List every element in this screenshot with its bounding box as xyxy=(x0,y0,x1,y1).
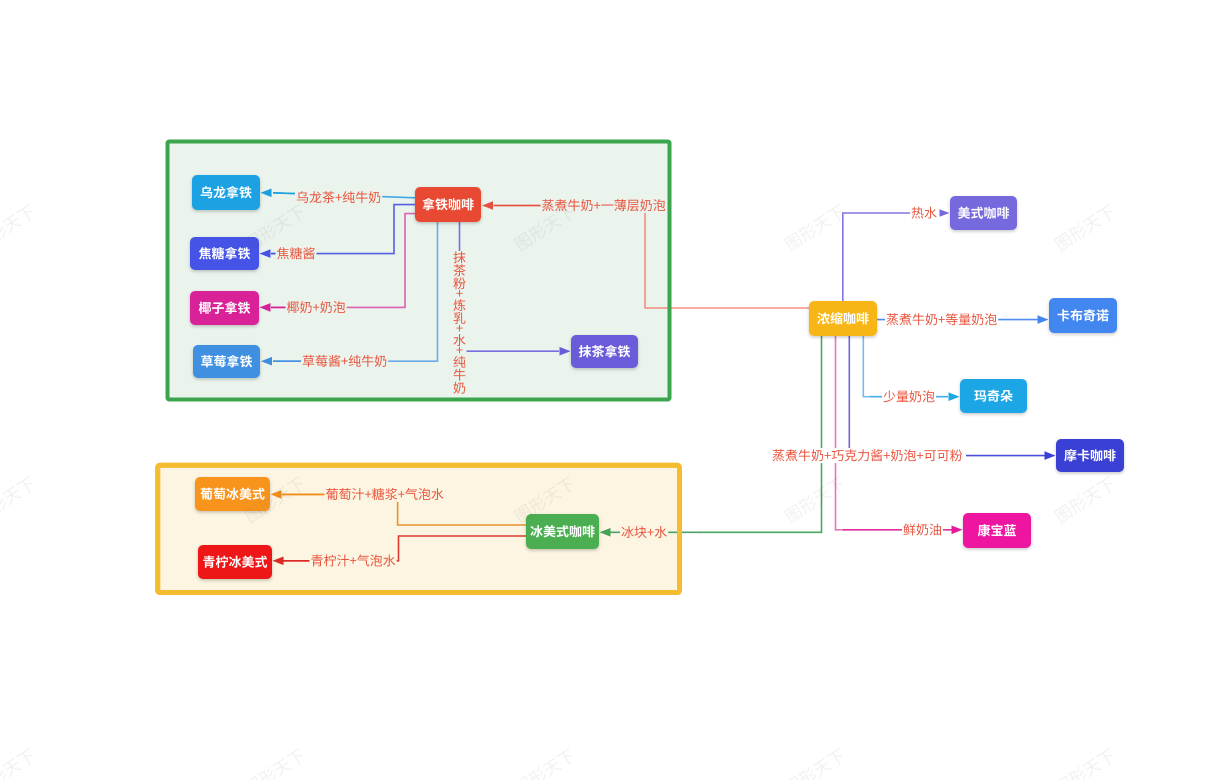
arrow into 冰美式咖啡 xyxy=(600,528,611,537)
node 卡布奇诺 xyxy=(1049,298,1117,333)
wire 浓缩咖啡 to 卡布奇诺 xyxy=(877,319,1038,321)
wire 拿铁咖啡 to 乌龙拿铁 xyxy=(273,193,416,198)
node 草莓拿铁 xyxy=(193,345,260,378)
node 浓缩咖啡 xyxy=(809,301,877,336)
label 焦糖酱 xyxy=(276,246,317,261)
wire 拿铁咖啡 to 草莓拿铁 xyxy=(273,222,438,361)
wire 浓缩咖啡 to 摩卡咖啡 xyxy=(848,336,850,448)
wire 拿铁咖啡 to 抹茶拿铁 xyxy=(460,222,560,351)
arrow into 草莓拿铁 xyxy=(273,360,303,362)
arrow into 椰子拿铁 xyxy=(271,306,287,308)
label 鲜奶油 xyxy=(902,522,943,537)
label 少量奶泡 xyxy=(882,389,936,404)
label 青柠汁+气泡水 xyxy=(310,553,397,568)
node 椰子拿铁 xyxy=(190,291,259,325)
watermark pattern 图形天下 xyxy=(0,203,1117,780)
node 玛奇朵 xyxy=(960,379,1027,413)
arrow into 美式咖啡 xyxy=(940,209,950,217)
node 葡萄冰美式 xyxy=(195,477,270,511)
arrow into 焦糖拿铁 xyxy=(271,253,277,255)
wire 浓缩咖啡 to 玛奇朵 xyxy=(863,336,872,397)
label 热水 xyxy=(910,206,938,221)
arrow into 拿铁咖啡 xyxy=(494,205,543,207)
label 蒸煮牛奶+一薄层奶泡 xyxy=(541,198,667,213)
node 拿铁咖啡 xyxy=(415,187,481,222)
node 乌龙拿铁 xyxy=(192,175,260,210)
arrow into 玛奇朵 xyxy=(949,392,960,401)
group container (latte family) green box xyxy=(168,142,670,400)
arrow into 摩卡咖啡 xyxy=(1045,451,1056,460)
label 葡萄汁+糖浆+气泡水 xyxy=(325,487,445,502)
arrow into 青柠冰美式 xyxy=(284,560,312,562)
label 蒸煮牛奶+巧克力酱+奶泡+可可粉 xyxy=(771,448,964,463)
node 抹茶拿铁 xyxy=(571,335,638,368)
label 乌龙茶+纯牛奶 xyxy=(295,190,382,205)
label 蒸煮牛奶+等量奶泡 xyxy=(885,312,998,327)
node 美式咖啡 xyxy=(950,196,1017,230)
wire 浓缩咖啡 to 冰美式咖啡 xyxy=(700,336,822,532)
label 冰块+水 xyxy=(620,525,668,540)
wire 冰美式咖啡 to 葡萄冰美式 xyxy=(282,494,526,525)
green container border (over wires) xyxy=(168,142,670,400)
arrow into 葡萄冰美式 xyxy=(282,493,326,495)
wire 浓缩咖啡 to 拿铁咖啡 xyxy=(494,206,810,309)
wire 拿铁咖啡 to 焦糖拿铁 xyxy=(271,205,416,254)
label 草莓酱+纯牛奶 xyxy=(301,354,388,369)
label 椰奶+奶泡 xyxy=(286,300,347,315)
arrow into 抹茶拿铁 xyxy=(560,347,571,356)
node 焦糖拿铁 xyxy=(190,237,259,270)
wire 浓缩咖啡 to 美式咖啡 xyxy=(843,213,938,301)
node 青柠冰美式 xyxy=(198,545,272,579)
node 摩卡咖啡 xyxy=(1056,439,1124,472)
arrow into 乌龙拿铁 xyxy=(273,192,300,195)
arrow into 康宝蓝 xyxy=(952,526,963,535)
wire 浓缩咖啡 to 康宝蓝 xyxy=(836,336,846,530)
label 抹茶粉+炼乳+水+纯牛奶 (vertical) xyxy=(453,251,467,395)
group container (iced americano family) yellow box xyxy=(158,465,680,592)
yellow container border (over wires) xyxy=(158,465,680,592)
node 康宝蓝 xyxy=(963,513,1031,548)
wire 冰美式咖啡 to 青柠冰美式 xyxy=(284,536,527,561)
node 冰美式咖啡 xyxy=(526,514,599,549)
arrow into 卡布奇诺 xyxy=(1038,315,1049,324)
wire 拿铁咖啡 to 椰子拿铁 xyxy=(271,214,416,308)
